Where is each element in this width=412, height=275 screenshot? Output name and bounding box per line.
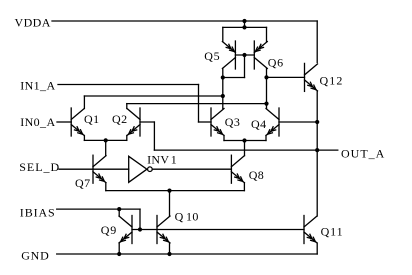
wire diode link left	[223, 77, 245, 79]
svg-text:Q2: Q2	[112, 112, 127, 126]
transistor Q11 (npn)	[304, 216, 317, 244]
wire IN1_A horizontal	[58, 84, 199, 86]
wire Q8 collector riser	[244, 141, 246, 156]
transistor Q10 (npn)	[157, 216, 170, 244]
wire Q10 collector riser	[169, 191, 171, 216]
node Q10 emitter on GND dot	[167, 252, 171, 256]
node OUT_A dot	[315, 148, 319, 152]
inverter INV1 triangle	[129, 156, 147, 182]
node emitter header dot	[242, 25, 246, 29]
wire Q5/Q6 emitter header	[223, 26, 267, 28]
svg-text:IN1_A: IN1_A	[20, 79, 55, 93]
wire diode link down	[244, 55, 246, 78]
svg-text:Q5: Q5	[204, 49, 220, 63]
transistor Q7 (npn)	[93, 155, 106, 183]
svg-text:IN0_A: IN0_A	[20, 115, 55, 129]
wire OUT_A stub	[317, 149, 338, 151]
wire right mirror leg	[266, 69, 268, 109]
inverter INV1 bubble	[148, 167, 153, 172]
svg-text:Q7: Q7	[75, 176, 90, 190]
svg-text:Q: Q	[175, 210, 184, 224]
node Q3/Q4 emitters dot	[242, 138, 246, 142]
node Q2 collector join dot	[264, 102, 268, 106]
wire Q12 emitter / OUT vertical	[316, 91, 318, 216]
wire Q9/Q10/Q11 base rail	[132, 229, 304, 231]
node IBIAS/Q9 collector dot	[117, 207, 121, 211]
svg-text:Q4: Q4	[251, 117, 266, 131]
wire Q1 collector riser	[83, 96, 85, 109]
wire Q2 emitter leg	[126, 136, 128, 141]
wire Q10 emitter leg	[169, 243, 171, 254]
svg-text:1: 1	[171, 153, 177, 167]
node Q6 collector tie dot	[264, 75, 268, 79]
svg-text:10: 10	[186, 210, 199, 224]
svg-text:Q9: Q9	[101, 223, 117, 237]
transistor Q12 (npn)	[305, 63, 318, 91]
node Q1/Q2 emitters dot	[104, 138, 108, 142]
svg-text:Q12: Q12	[320, 73, 344, 87]
wire Q9 collector riser	[118, 209, 120, 216]
wire Q1 collector to left mirror	[84, 95, 222, 97]
svg-text:Q1: Q1	[84, 112, 99, 126]
wire IBIAS horizontal	[57, 208, 140, 210]
node Q1 collector join dot	[221, 94, 225, 98]
transistor Q6 (pnp)	[254, 41, 267, 69]
transistor Q9 (npn)	[119, 216, 132, 244]
transistor Q5 (pnp)	[222, 41, 235, 69]
wire IN0_A to Q1 base	[57, 121, 71, 123]
svg-text:SEL_D: SEL_D	[19, 160, 60, 174]
wire Q6 emitter leg	[266, 27, 268, 41]
wire Q4 emitter leg	[265, 136, 267, 141]
svg-text:Q8: Q8	[249, 168, 264, 182]
svg-text:GND: GND	[21, 249, 49, 263]
wire IN1_A drop	[198, 85, 200, 123]
svg-text:IBIAS: IBIAS	[20, 205, 56, 219]
wire Q2 collector riser	[126, 104, 128, 109]
wire IN1_A to Q3 base	[199, 121, 212, 123]
node Q9 emitter on GND dot	[117, 252, 121, 256]
wire Q1 emitter leg	[83, 136, 85, 141]
wire VDDA stub down	[244, 21, 246, 27]
wire VDDA drop to Q12 collector	[316, 21, 318, 62]
wire left mirror leg	[222, 69, 224, 109]
wire Q5 base to Q6 base	[235, 54, 254, 56]
wire Q1/Q2 emitter rail	[84, 139, 126, 141]
transistor Q4 (npn)	[266, 108, 279, 136]
node tail rail dot	[167, 189, 171, 193]
wire Q3/Q4 emitter rail	[224, 140, 266, 142]
wire GND rail	[57, 253, 318, 255]
wire Q6 collector to Q12 base	[267, 76, 305, 78]
node Q4 base tap dot	[315, 120, 319, 124]
node VDDA junction dot	[242, 19, 246, 23]
svg-text:OUT_A: OUT_A	[341, 146, 385, 160]
svg-text:INV: INV	[147, 153, 169, 167]
wire Q8 emitter leg	[243, 183, 245, 191]
wire Q9 emitter leg	[118, 243, 120, 254]
wire Q2 collector to right mirror	[127, 103, 267, 105]
wire Q2 base drop	[153, 122, 155, 150]
wire inverter output to Q8 base	[153, 168, 231, 170]
svg-text:Q11: Q11	[321, 225, 344, 239]
transistor Q1 (npn)	[71, 108, 84, 136]
wire SEL_D to inverter input	[59, 168, 129, 170]
svg-text:VDDA: VDDA	[15, 16, 51, 30]
wire Q2 base over	[140, 121, 154, 123]
svg-text:Q6: Q6	[268, 55, 284, 69]
transistor Q8 (npn)	[231, 155, 244, 183]
svg-text:Q3: Q3	[225, 115, 240, 129]
wire Q3 emitter leg	[223, 136, 225, 141]
node base rail tap dot	[138, 227, 142, 231]
wire IBIAS drop to bases	[139, 209, 141, 229]
wire feedback rail to OUT	[154, 149, 317, 151]
wire Q7 emitter leg	[105, 183, 107, 191]
wire Q7/Q8 emitter rail	[106, 190, 245, 192]
wire Q5 emitter leg	[222, 27, 224, 41]
node Q5 collector/base tie dot	[221, 75, 225, 79]
wire Q4 base to OUT vertical	[279, 121, 317, 123]
transistor Q2 (npn)	[127, 108, 140, 136]
transistor Q3 (npn)	[211, 108, 224, 136]
wire VDDA rail	[52, 20, 317, 22]
node Q5/Q6 common base dot	[242, 53, 246, 57]
wire Q11 emitter leg	[316, 243, 318, 254]
wire Q7 collector riser	[105, 140, 107, 155]
